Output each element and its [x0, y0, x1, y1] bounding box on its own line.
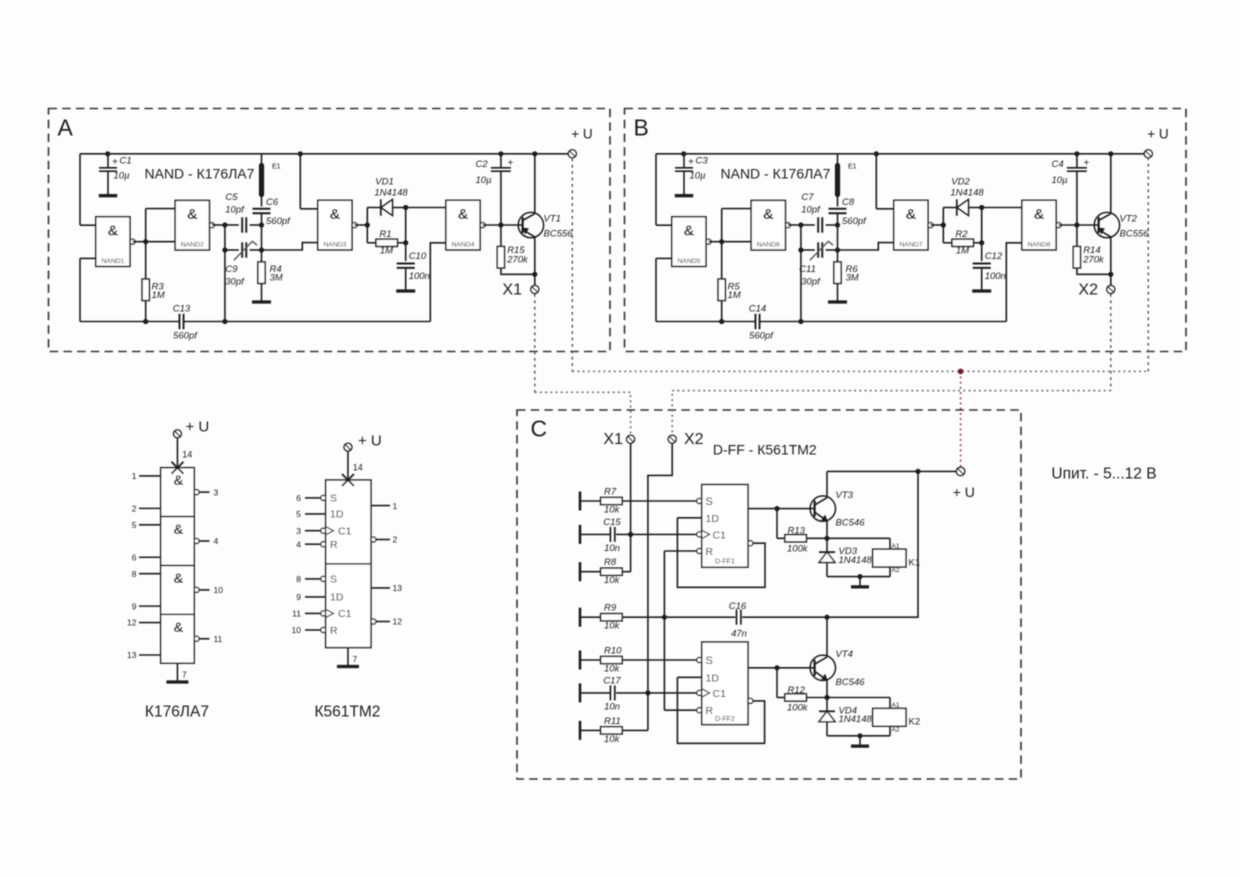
- svg-text:R8: R8: [604, 557, 617, 568]
- svg-text:X1: X1: [603, 431, 623, 448]
- svg-text:270k: 270k: [1082, 255, 1105, 266]
- svg-text:1N4148: 1N4148: [839, 714, 873, 725]
- svg-text:1M: 1M: [380, 246, 393, 257]
- svg-text:X2: X2: [1078, 281, 1098, 298]
- svg-text:&: &: [173, 619, 183, 635]
- svg-text:11: 11: [214, 634, 223, 644]
- svg-text:S: S: [330, 574, 337, 586]
- svg-text:R10: R10: [604, 646, 622, 657]
- svg-text:C9: C9: [225, 264, 238, 275]
- svg-text:S: S: [706, 655, 713, 667]
- svg-text:560pf: 560pf: [842, 216, 867, 227]
- svg-text:Uпит. - 5...12 В: Uпит. - 5...12 В: [1051, 466, 1156, 483]
- svg-text:4: 4: [214, 536, 219, 546]
- svg-text:270k: 270k: [506, 255, 529, 266]
- svg-text:C1: C1: [338, 526, 352, 538]
- svg-text:&: &: [329, 206, 340, 223]
- svg-text:BC556: BC556: [544, 229, 574, 240]
- svg-text:К176ЛА7: К176ЛА7: [145, 704, 209, 721]
- svg-text:1: 1: [393, 501, 398, 511]
- svg-text:&: &: [107, 222, 118, 239]
- svg-text:NAND8: NAND8: [1027, 241, 1050, 248]
- svg-text:C4: C4: [1052, 159, 1064, 170]
- svg-text:10: 10: [292, 625, 302, 635]
- svg-text:12: 12: [127, 618, 137, 628]
- svg-text:C2: C2: [476, 159, 489, 170]
- svg-text:C1: C1: [713, 529, 727, 541]
- svg-text:X1: X1: [502, 281, 522, 298]
- svg-text:1D: 1D: [330, 509, 344, 521]
- svg-text:7: 7: [352, 654, 357, 664]
- svg-text:A2: A2: [892, 726, 900, 733]
- svg-text:A1: A1: [892, 702, 900, 709]
- svg-text:10k: 10k: [604, 621, 621, 632]
- svg-text:R11: R11: [604, 716, 621, 727]
- svg-text:R2: R2: [955, 229, 968, 240]
- svg-text:7: 7: [182, 670, 187, 680]
- svg-text:+ U: + U: [571, 127, 592, 142]
- svg-text:10µ: 10µ: [1052, 175, 1069, 186]
- svg-text:9: 9: [132, 601, 137, 611]
- svg-text:560pf: 560pf: [173, 331, 198, 342]
- svg-text:1: 1: [132, 471, 137, 481]
- svg-text:2: 2: [132, 504, 137, 514]
- svg-text:A2: A2: [892, 567, 900, 574]
- svg-text:&: &: [173, 570, 183, 586]
- svg-text:10k: 10k: [604, 575, 621, 586]
- svg-text:&: &: [1034, 206, 1045, 223]
- svg-text:C5: C5: [225, 192, 238, 203]
- svg-text:D-FF2: D-FF2: [715, 716, 735, 723]
- svg-text:C8: C8: [842, 197, 855, 208]
- svg-text:VT2: VT2: [1120, 214, 1138, 225]
- svg-text:A: A: [58, 115, 74, 141]
- svg-text:+: +: [688, 157, 694, 168]
- svg-text:R: R: [330, 625, 338, 637]
- svg-text:A1: A1: [892, 543, 900, 550]
- svg-text:R: R: [706, 705, 714, 717]
- svg-text:D-FF1: D-FF1: [715, 558, 735, 565]
- svg-text:14: 14: [182, 450, 192, 460]
- svg-text:C1: C1: [338, 608, 352, 620]
- svg-text:+ U: + U: [185, 419, 209, 436]
- svg-text:5: 5: [132, 520, 137, 530]
- svg-text:13: 13: [127, 650, 137, 660]
- svg-text:100k: 100k: [787, 543, 809, 554]
- svg-text:47n: 47n: [731, 629, 747, 640]
- svg-text:R13: R13: [788, 526, 806, 537]
- svg-text:R1: R1: [379, 229, 391, 240]
- svg-text:R12: R12: [788, 685, 806, 696]
- svg-text:К561ТМ2: К561ТМ2: [315, 704, 381, 721]
- svg-text:3: 3: [296, 526, 301, 536]
- svg-text:C10: C10: [409, 251, 427, 262]
- svg-text:NAND1: NAND1: [101, 258, 124, 265]
- svg-text:C1: C1: [713, 688, 727, 700]
- svg-text:BC546: BC546: [836, 518, 866, 529]
- svg-text:10µ: 10µ: [114, 171, 131, 182]
- svg-text:VT3: VT3: [836, 490, 854, 501]
- svg-text:C16: C16: [729, 601, 747, 612]
- svg-text:VT1: VT1: [544, 214, 561, 225]
- svg-text:+: +: [112, 157, 118, 168]
- svg-text:NAND6: NAND6: [757, 241, 780, 248]
- svg-text:C12: C12: [985, 251, 1003, 262]
- svg-text:10n: 10n: [604, 543, 620, 554]
- svg-text:1N4148: 1N4148: [374, 188, 408, 199]
- svg-text:+: +: [507, 158, 513, 169]
- svg-text:&: &: [173, 521, 183, 537]
- svg-text:100n: 100n: [985, 271, 1006, 282]
- svg-text:3M: 3M: [846, 273, 859, 284]
- svg-text:1D: 1D: [706, 513, 720, 525]
- svg-text:12: 12: [393, 617, 403, 627]
- svg-text:30pf: 30pf: [225, 277, 245, 288]
- svg-text:8: 8: [296, 574, 301, 584]
- svg-text:C14: C14: [749, 304, 766, 315]
- svg-text:3M: 3M: [270, 273, 283, 284]
- svg-text:560pf: 560pf: [266, 216, 291, 227]
- svg-text:5: 5: [296, 509, 301, 519]
- svg-text:R9: R9: [604, 603, 617, 614]
- svg-text:NAND - К176ЛА7: NAND - К176ЛА7: [721, 166, 831, 182]
- svg-text:C17: C17: [603, 676, 621, 687]
- svg-text:+: +: [1083, 158, 1089, 169]
- svg-text:4: 4: [296, 539, 301, 549]
- svg-text:C11: C11: [799, 264, 816, 275]
- svg-text:R: R: [706, 546, 714, 558]
- svg-text:1D: 1D: [706, 672, 720, 684]
- svg-text:C6: C6: [266, 197, 279, 208]
- svg-text:6: 6: [296, 493, 301, 503]
- svg-text:560pf: 560pf: [749, 331, 774, 342]
- svg-text:1N4148: 1N4148: [950, 188, 984, 199]
- svg-text:13: 13: [393, 583, 403, 593]
- svg-text:10µ: 10µ: [476, 175, 493, 186]
- svg-text:E1: E1: [272, 164, 281, 171]
- svg-text:&: &: [905, 206, 916, 223]
- svg-text:1M: 1M: [152, 290, 165, 301]
- svg-text:8: 8: [132, 569, 137, 579]
- svg-text:VD2: VD2: [951, 177, 970, 188]
- svg-text:+ U: + U: [953, 484, 975, 500]
- svg-text:2: 2: [393, 535, 398, 545]
- svg-text:1D: 1D: [330, 592, 344, 604]
- svg-text:C: C: [531, 416, 548, 442]
- svg-text:10n: 10n: [604, 702, 620, 713]
- svg-text:C15: C15: [603, 517, 621, 528]
- svg-text:14: 14: [353, 463, 363, 473]
- svg-text:10: 10: [214, 585, 224, 595]
- svg-text:S: S: [330, 493, 337, 505]
- svg-text:1M: 1M: [728, 290, 741, 301]
- svg-text:100k: 100k: [787, 703, 809, 714]
- svg-text:NAND5: NAND5: [677, 258, 700, 265]
- svg-text:NAND2: NAND2: [181, 241, 204, 248]
- svg-text:10pf: 10pf: [801, 205, 821, 216]
- svg-text:BC546: BC546: [836, 677, 866, 688]
- svg-text:B: B: [634, 115, 649, 141]
- svg-text:NAND - К176ЛА7: NAND - К176ЛА7: [145, 166, 255, 182]
- svg-text:BC556: BC556: [1120, 229, 1150, 240]
- svg-text:C13: C13: [173, 304, 191, 315]
- svg-text:C1: C1: [120, 156, 132, 167]
- svg-text:S: S: [706, 496, 713, 508]
- svg-text:E1: E1: [848, 164, 857, 171]
- svg-text:VD1: VD1: [375, 177, 393, 188]
- svg-text:X2: X2: [684, 431, 704, 448]
- svg-text:10µ: 10µ: [690, 171, 707, 182]
- svg-text:&: &: [187, 206, 198, 223]
- svg-text:K1: K1: [909, 557, 921, 568]
- svg-text:C7: C7: [801, 192, 814, 203]
- svg-text:VT4: VT4: [836, 649, 853, 660]
- svg-text:10pf: 10pf: [225, 205, 245, 216]
- svg-text:+ U: + U: [1147, 127, 1168, 142]
- svg-text:&: &: [763, 206, 774, 223]
- svg-text:1N4148: 1N4148: [839, 555, 873, 566]
- svg-text:K2: K2: [909, 717, 921, 728]
- svg-text:30pf: 30pf: [801, 277, 821, 288]
- svg-text:3: 3: [214, 487, 219, 497]
- svg-text:&: &: [683, 222, 694, 239]
- svg-text:6: 6: [132, 552, 137, 562]
- svg-text:NAND3: NAND3: [323, 241, 346, 248]
- svg-text:&: &: [173, 472, 183, 488]
- svg-text:10k: 10k: [604, 664, 621, 675]
- svg-text:10k: 10k: [604, 505, 621, 516]
- svg-text:100n: 100n: [409, 271, 430, 282]
- svg-text:10k: 10k: [604, 734, 621, 745]
- svg-text:D-FF - К561ТМ2: D-FF - К561ТМ2: [713, 442, 817, 458]
- svg-text:&: &: [458, 206, 469, 223]
- svg-text:NAND7: NAND7: [899, 241, 922, 248]
- svg-text:R7: R7: [604, 487, 617, 498]
- svg-text:11: 11: [292, 609, 301, 619]
- svg-text:9: 9: [296, 592, 301, 602]
- svg-text:C3: C3: [696, 156, 709, 167]
- svg-text:1M: 1M: [956, 246, 969, 257]
- svg-text:NAND4: NAND4: [451, 241, 474, 248]
- svg-text:+ U: + U: [358, 433, 382, 450]
- svg-text:R: R: [330, 539, 338, 551]
